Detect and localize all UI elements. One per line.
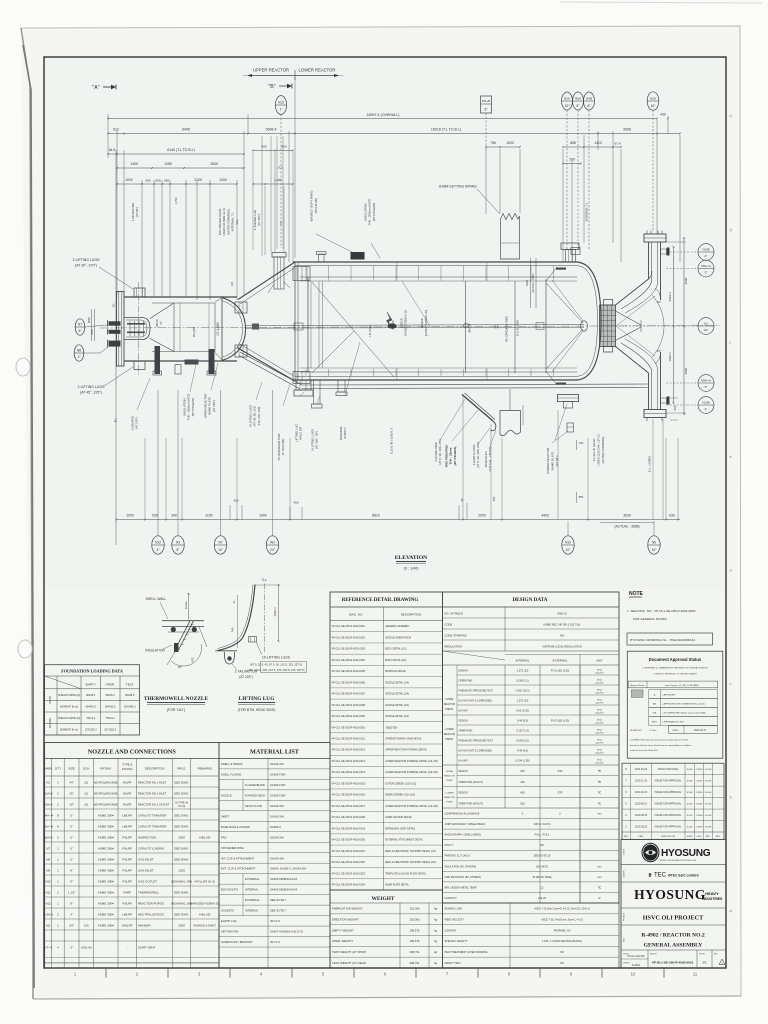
- svg-text:1071252.3: 1071252.3: [104, 728, 116, 731]
- svg-text:kg/cm²G: kg/cm²G: [596, 712, 604, 715]
- svg-text:SEE DWG.: SEE DWG.: [174, 913, 189, 917]
- svg-text:W1: W1: [270, 540, 275, 544]
- svg-text:M.A.W.P: M.A.W.P: [459, 760, 469, 763]
- svg-text:CATALYST LOADING: CATALYST LOADING: [138, 847, 164, 851]
- svg-text:document shall not relieve Ven: document shall not relieve Vendor from i…: [630, 744, 691, 747]
- svg-text:VP-OL1-SE-205-R-4002-0023: VP-OL1-SE-205-R-4002-0023: [332, 872, 366, 875]
- svg-text:kg: kg: [434, 918, 437, 922]
- svg-text:HEAVY: HEAVY: [705, 891, 719, 896]
- svg-text:M.A.W.P: M.A.W.P: [459, 710, 469, 713]
- svg-text:θ: θ: [649, 873, 652, 879]
- svg-text:FV (0.103) (1.05): FV (0.103) (1.05): [551, 720, 569, 723]
- svg-text:REACTOR NO.2 INLET: REACTOR NO.2 INLET: [138, 781, 167, 785]
- svg-text:J.Y.KMG: J.Y.KMG: [696, 781, 704, 783]
- svg-text:500: 500: [492, 496, 496, 501]
- svg-text:10": 10": [69, 803, 73, 807]
- svg-text:(T.O.S EL. +31580): (T.O.S EL. +31580): [488, 447, 492, 472]
- svg-text:SHT NO: SHT NO: [699, 954, 706, 956]
- svg-text:1593.3: 1593.3: [668, 352, 672, 362]
- svg-text:APPL: APPL: [716, 835, 721, 838]
- svg-text:kg/cm²G: kg/cm²G: [596, 692, 604, 695]
- svg-text:N13A,B: N13A,B: [43, 913, 53, 917]
- svg-text:SEE DWG.: SEE DWG.: [174, 792, 189, 796]
- svg-text:24": 24": [69, 924, 73, 928]
- svg-text:OPERATING (IN/OUT): OPERATING (IN/OUT): [459, 781, 483, 784]
- svg-text:700: 700: [579, 441, 584, 445]
- svg-text:Ø90: Ø90: [87, 317, 91, 323]
- svg-text:S.G.HM: S.G.HM: [705, 804, 712, 806]
- svg-text:350: 350: [673, 405, 677, 410]
- svg-text:BODY DETAIL (2/2): BODY DETAIL (2/2): [385, 659, 406, 662]
- svg-text:mm: mm: [597, 812, 601, 815]
- svg-text:N1: N1: [704, 322, 708, 326]
- svg-text:SUPPLY: SUPPLY: [343, 427, 347, 438]
- svg-text:INDUSTRIES: INDUSTRIES: [702, 897, 723, 901]
- svg-text:1,750: 1,750: [174, 197, 178, 204]
- svg-text:SA285-C: SA285-C: [270, 825, 281, 829]
- svg-text:450: 450: [191, 657, 195, 662]
- svg-text:DESIGN: DESIGN: [459, 792, 468, 795]
- svg-text:2020.10.22: 2020.10.22: [635, 791, 648, 794]
- svg-text:DESIGN DATA: DESIGN DATA: [512, 597, 547, 603]
- svg-text:HYOSUNG: HYOSUNG: [634, 887, 706, 902]
- svg-text:HOLE 55T: HOLE 55T: [299, 426, 303, 440]
- svg-text:1000: 1000: [506, 141, 514, 145]
- svg-text:N4A~H: N4A~H: [43, 814, 53, 818]
- svg-text:"B": "B": [268, 84, 275, 90]
- svg-text:RADIOGRAPHY (SHELL/HEAD): RADIOGRAPHY (SHELL/HEAD): [445, 834, 482, 837]
- svg-text:S.G.HM: S.G.HM: [705, 769, 712, 771]
- svg-text:(AT 90°): (AT 90°): [555, 456, 559, 467]
- svg-text:TEST WEIGHT (AT FIELD): TEST WEIGHT (AT FIELD): [332, 961, 366, 965]
- svg-text:kPaG: kPaG: [597, 730, 603, 732]
- svg-text:2020.11.18: 2020.11.18: [635, 780, 648, 783]
- svg-text:495: 495: [145, 178, 150, 182]
- svg-text:VP-OL1-SE-205-R-4002-0008: VP-OL1-SE-205-R-4002-0008: [332, 704, 366, 707]
- svg-text:2-LIFTING LUGS: 2-LIFTING LUGS: [77, 385, 105, 389]
- svg-text:N7: N7: [46, 847, 50, 851]
- svg-text:SEE NOTE 7: SEE NOTE 7: [270, 909, 287, 913]
- svg-text:SHELL FLANGE: SHELL FLANGE: [221, 772, 242, 776]
- svg-text:WIND VELOCITY: WIND VELOCITY: [445, 918, 465, 921]
- svg-text:REACTOR: REACTOR: [444, 796, 455, 799]
- svg-text:VP-OL1-SE-205-R-4002-0024: VP-OL1-SE-205-R-4002-0024: [332, 883, 366, 886]
- svg-text:-: -: [86, 891, 87, 895]
- svg-text:B.S.BD: B.S.BD: [687, 792, 694, 794]
- svg-text:SA240-304: SA240-304: [270, 856, 284, 860]
- svg-text:SHEAR FORCE [N]: SHEAR FORCE [N]: [58, 717, 80, 720]
- svg-text:FV (0.103) (1.05): FV (0.103) (1.05): [551, 670, 569, 673]
- svg-text:kg/cm²G: kg/cm²G: [596, 732, 604, 735]
- svg-text:SA240-304: SA240-304: [270, 762, 284, 766]
- svg-text:(FOR 'N11'): (FOR 'N11'): [167, 708, 185, 712]
- svg-text:VP-OL1-SE-205-R-4002-0001: VP-OL1-SE-205-R-4002-0001: [332, 625, 366, 628]
- svg-text:1-TAILING LUG: 1-TAILING LUG: [235, 670, 258, 674]
- svg-text:340: 340: [171, 514, 177, 518]
- svg-text:(S-TYPE (W: (S-TYPE (W: [175, 802, 188, 804]
- svg-text:VP-OL1-SE-205-R-4002-0009: VP-OL1-SE-205-R-4002-0009: [332, 715, 366, 718]
- svg-text:A/FILLER (N.S): A/FILLER (N.S): [194, 880, 215, 884]
- svg-text:FNLRF: FNLRF: [122, 847, 132, 851]
- svg-text:NOZZLE: NOZZLE: [221, 793, 232, 797]
- svg-text:MOMENT [N-m]: MOMENT [N-m]: [60, 705, 78, 708]
- svg-text:: J.Y.Kim: : J.Y.Kim: [648, 730, 657, 732]
- svg-text:N13: N13: [278, 100, 284, 104]
- svg-text:SCH.: SCH.: [83, 767, 90, 771]
- svg-text:620: 620: [520, 769, 525, 773]
- svg-text:11: 11: [693, 972, 698, 977]
- svg-text:FNLRF: FNLRF: [122, 869, 132, 873]
- svg-text:-: -: [86, 858, 87, 862]
- svg-text:NEUTRALIZATION: NEUTRALIZATION: [138, 913, 164, 917]
- svg-text:SA307-A/SA563-A (H.D.G): SA307-A/SA563-A (H.D.G): [270, 930, 303, 934]
- svg-text:8": 8": [70, 880, 73, 884]
- svg-text:VP-OL1-SE-205-R-4002-0001: VP-OL1-SE-205-R-4002-0001: [652, 961, 694, 965]
- svg-text:STR: STR: [558, 770, 563, 773]
- svg-text:USED (122 DIA. 127.2): USED (122 DIA. 127.2): [597, 434, 601, 465]
- svg-text:ASCE 7-16 (Site Class=D, I=1.2: ASCE 7-16 (Site Class=D, I=1.25, Ss=0.25…: [534, 908, 589, 911]
- svg-text:DESCRIPTION: DESCRIPTION: [661, 836, 675, 838]
- svg-text:INSPECTION: INSPECTION: [138, 836, 156, 840]
- svg-text:P.W.H.T: P.W.H.T: [445, 844, 454, 847]
- svg-text:INSULATION (BY OTHERS): INSULATION (BY OTHERS): [445, 865, 477, 868]
- svg-text:(NOMINAL 190): (NOMINAL 190): [171, 880, 192, 884]
- svg-text:24": 24": [270, 548, 276, 552]
- svg-text:ASCE 7-16, (V=160 m/s, Exp=C,: ASCE 7-16, (V=160 m/s, Exp=C, I=1.0): [541, 918, 583, 921]
- svg-text:45°: 45°: [178, 665, 183, 669]
- svg-text:OPERATING (IN/OUT): OPERATING (IN/OUT): [459, 802, 483, 805]
- svg-text:-: -: [127, 946, 128, 950]
- svg-text:N13B: N13B: [702, 401, 709, 405]
- svg-text:16": 16": [651, 104, 657, 108]
- svg-text:TEST WEIGHT (AT SHOP): TEST WEIGHT (AT SHOP): [332, 950, 366, 954]
- svg-text:B.S.BD: B.S.BD: [687, 804, 694, 806]
- svg-text:[SCH40 AB]: [SCH40 AB]: [314, 198, 318, 213]
- svg-text:430: 430: [660, 113, 666, 117]
- svg-text:N11: N11: [46, 891, 52, 895]
- svg-text:N2A,B: N2A,B: [44, 792, 53, 796]
- svg-text:INTERNAL T.L: INTERNAL T.L: [585, 202, 589, 221]
- svg-text:338,761: 338,761: [409, 950, 420, 954]
- svg-text:168,575: 168,575: [409, 939, 420, 943]
- svg-text:(ACTUAL : 3598): (ACTUAL : 3598): [614, 525, 639, 529]
- svg-text:(BY OTHERS): (BY OTHERS): [372, 203, 376, 222]
- svg-text:N7: N7: [78, 322, 82, 326]
- svg-text:(ACTUAL : 2190): (ACTUAL : 2190): [532, 273, 535, 292]
- svg-text:-: -: [86, 814, 87, 818]
- svg-text:kg/cm²G: kg/cm²G: [596, 682, 604, 685]
- svg-text:kg: kg: [434, 961, 437, 965]
- svg-text:PNEUMATIC PRESSURE TEST: PNEUMATIC PRESSURE TEST: [459, 740, 494, 743]
- svg-text:PROJECT: PROJECT: [624, 913, 626, 921]
- svg-text:ASME 300#: ASME 300#: [98, 847, 114, 851]
- svg-text:VP-OL1-SE-205-R-4002-0006: VP-OL1-SE-205-R-4002-0006: [332, 681, 366, 684]
- svg-text:1285: 1285: [164, 162, 172, 166]
- svg-text:NOZZLE DETAIL (1/4): NOZZLE DETAIL (1/4): [385, 681, 409, 684]
- svg-text:NOZZLE DETAIL (4/4): NOZZLE DETAIL (4/4): [385, 715, 409, 718]
- svg-text:2. REFLECT THE RESULT TO THE N: 2. REFLECT THE RESULT TO THE NEXT SUBMIT: [653, 674, 697, 676]
- svg-text:1": 1": [280, 108, 283, 112]
- svg-text:1. SEE DWG. NO : VP-OL1-SE-205: 1. SEE DWG. NO : VP-OL1-SE-205-R-4002-00…: [627, 609, 696, 613]
- svg-text:N10: N10: [45, 880, 51, 884]
- svg-text:0.49 (5.0): 0.49 (5.0): [517, 749, 528, 753]
- svg-text:FIRE PROOFING (BY OTHERS): FIRE PROOFING (BY OTHERS): [445, 876, 482, 879]
- svg-text:1. REVIEWING & COMMENTING BY T: 1. REVIEWING & COMMENTING BY THE RESULT …: [642, 667, 708, 670]
- svg-text:-: -: [105, 946, 106, 950]
- svg-text:625: 625: [520, 801, 525, 805]
- svg-text:STR: STR: [558, 792, 563, 795]
- svg-text:2500: 2500: [684, 277, 688, 284]
- svg-text:kPaG: kPaG: [597, 690, 603, 692]
- svg-text:FNLRF: FNLRF: [122, 880, 132, 884]
- svg-text:"A": "A": [92, 85, 99, 91]
- svg-text:C.L +23500: C.L +23500: [648, 456, 652, 472]
- svg-text:TEST: TEST: [126, 683, 134, 687]
- svg-text:(BY OTHERS): (BY OTHERS): [191, 398, 195, 417]
- svg-text:DATE :: DATE :: [673, 729, 680, 732]
- svg-text:0.134 (1.38): 0.134 (1.38): [516, 759, 530, 763]
- svg-text:KT~4: KT~4: [45, 946, 53, 950]
- svg-text:= INFORMATION ONLY: = INFORMATION ONLY: [662, 720, 685, 723]
- svg-text:EMPTY WEIGHT: EMPTY WEIGHT: [332, 928, 354, 932]
- svg-text:INTERNAL: INTERNAL: [245, 909, 259, 913]
- svg-text:1000: 1000: [126, 514, 134, 518]
- svg-text:STIFFENER RING: STIFFENER RING: [221, 846, 244, 850]
- svg-text:ISSUE FOR APPROVAL: ISSUE FOR APPROVAL: [655, 814, 682, 817]
- svg-text:(AT 270°): (AT 270°): [135, 417, 139, 429]
- svg-text:WIND: WIND: [48, 696, 52, 703]
- svg-text:LOWER REACTOR INTERNAL DETAIL: LOWER REACTOR INTERNAL DETAIL (7/9~9/9): [385, 805, 438, 808]
- svg-text:COMPRESSION ALLOWANCE: COMPRESSION ALLOWANCE: [445, 812, 480, 815]
- svg-text:VP-OL1-SE-205-R-4002-0022: VP-OL1-SE-205-R-4002-0022: [332, 861, 366, 864]
- svg-text:VP-OL1-SE-205-R-4002-0015: VP-OL1-SE-205-R-4002-0015: [332, 782, 366, 785]
- svg-text:0.157 (1.6): 0.157 (1.6): [516, 729, 529, 733]
- svg-text:LWLRF: LWLRF: [122, 913, 132, 917]
- svg-text:kg: kg: [434, 928, 437, 932]
- svg-text:FNRF: FNRF: [123, 891, 131, 895]
- svg-text:OUTER SCREEN (1/2)~(2/2): OUTER SCREEN (1/2)~(2/2): [385, 782, 416, 785]
- svg-text:[INNER SCREEN I.D]: [INNER SCREEN I.D]: [404, 310, 408, 335]
- svg-text:-: -: [181, 946, 182, 950]
- svg-text:LOWER REACTOR: LOWER REACTOR: [299, 68, 336, 73]
- svg-text:SA240-304: SA240-304: [270, 814, 284, 818]
- svg-text:115: 115: [84, 924, 89, 928]
- svg-text:SETTING R/N: SETTING R/N: [221, 930, 238, 934]
- svg-text:MARK: MARK: [44, 767, 52, 771]
- svg-text:400: 400: [520, 780, 525, 784]
- svg-text:LOWER REACTOR INTERNAL DETAIL: LOWER REACTOR INTERNAL DETAIL (4/9~6/9): [385, 771, 438, 774]
- svg-text:INFO: INFO: [652, 721, 658, 723]
- svg-text:EXTERNAL: EXTERNAL: [553, 659, 568, 663]
- svg-text:98235.4: 98235.4: [86, 694, 96, 697]
- svg-text:VP-OL1-SE-205-R-4002-0010: VP-OL1-SE-205-R-4002-0010: [332, 726, 366, 729]
- svg-text:kPaG: kPaG: [597, 760, 603, 762]
- svg-text:100 % / 100 %: 100 % / 100 %: [534, 822, 552, 826]
- svg-text:J.Y.KMG: J.Y.KMG: [696, 769, 704, 771]
- svg-text:5": 5": [70, 858, 73, 862]
- svg-text:CONTR: CONTR: [624, 848, 626, 855]
- svg-text:N 0.3)): N 0.3)): [178, 806, 185, 808]
- svg-text:10: 10: [631, 972, 636, 977]
- svg-text:B.S.BD: B.S.BD: [687, 826, 694, 828]
- svg-text:NOTE: NOTE: [629, 591, 644, 597]
- svg-text:LIFTING LUG: LIFTING LUG: [239, 696, 276, 702]
- svg-text:NO: NO: [560, 962, 564, 965]
- svg-text:4": 4": [705, 407, 708, 411]
- svg-text:1.275 (13): 1.275 (13): [517, 669, 529, 673]
- svg-text:2021.01.26: 2021.01.26: [635, 768, 648, 771]
- svg-text:N2A: N2A: [564, 96, 571, 100]
- svg-text:N3: N3: [176, 540, 180, 544]
- svg-text:h: h: [730, 113, 732, 118]
- svg-text:1,000: 1,000: [274, 178, 282, 182]
- svg-text:W/RODED FILER(N.S): W/RODED FILER(N.S): [191, 902, 219, 906]
- svg-text:CONTRACTOR permission to proce: CONTRACTOR permission to proceed or revi…: [630, 739, 688, 742]
- svg-text:JOINT EFFICIENCY (SHELL/HEAD): JOINT EFFICIENCY (SHELL/HEAD): [445, 823, 486, 826]
- svg-text:FABRICATION WEIGHT: FABRICATION WEIGHT: [332, 907, 363, 911]
- svg-text:16": 16": [652, 548, 658, 552]
- svg-text:500: 500: [155, 178, 160, 182]
- svg-text:PNEUMATIC PRESSURE TEST: PNEUMATIC PRESSURE TEST: [459, 690, 494, 693]
- svg-text:98235.4: 98235.4: [106, 694, 116, 697]
- svg-text:LINER ANCHOR DETAIL: LINER ANCHOR DETAIL: [385, 816, 412, 819]
- svg-text:RC OPENING 4600: RC OPENING 4600: [505, 316, 509, 342]
- svg-text:2606.4: 2606.4: [266, 128, 277, 132]
- svg-text:EXPANSION JOINT DETAIL: EXPANSION JOINT DETAIL: [385, 827, 416, 830]
- svg-text:ONE (1): ONE (1): [557, 612, 567, 616]
- svg-text:8": 8": [70, 902, 73, 906]
- svg-text:NECK PLATE: NECK PLATE: [245, 804, 262, 808]
- svg-text:5": 5": [70, 814, 73, 818]
- svg-text:PROJ.: PROJ.: [177, 767, 186, 771]
- svg-text:64.5: 64.5: [109, 148, 115, 152]
- svg-text:SKIRT VENT: SKIRT VENT: [138, 946, 156, 950]
- svg-text:78114.2: 78114.2: [106, 717, 115, 720]
- svg-text:8-Ø64 SETTING R/RING: 8-Ø64 SETTING R/RING: [439, 185, 477, 189]
- svg-text:16-LIFTING LUGS: 16-LIFTING LUGS: [262, 656, 291, 660]
- svg-text:SEE DWG.: SEE DWG.: [174, 847, 189, 851]
- svg-text:-: -: [86, 836, 87, 840]
- svg-text:VP-OL1-SE-205-R-4002-0013: VP-OL1-SE-205-R-4002-0013: [332, 760, 366, 763]
- svg-text:10": 10": [218, 548, 224, 552]
- svg-text:ISSUE FOR APPROVAL: ISSUE FOR APPROVAL: [655, 803, 682, 806]
- svg-text:-: -: [86, 880, 87, 884]
- svg-text:ASME 300#: ASME 300#: [98, 891, 114, 895]
- svg-text:1593.3: 1593.3: [273, 607, 277, 617]
- svg-text:5": 5": [705, 270, 708, 274]
- svg-text:ASME 300#: ASME 300#: [98, 880, 114, 884]
- svg-text:15°: 15°: [657, 349, 661, 353]
- svg-text:0.539 (5.5): 0.539 (5.5): [516, 739, 529, 743]
- svg-text:78114.2: 78114.2: [86, 717, 95, 720]
- svg-text:Ø1,200: Ø1,200: [192, 327, 196, 337]
- svg-text:ASME 300#: ASME 300#: [98, 924, 114, 928]
- svg-text:2000: 2000: [478, 514, 486, 518]
- svg-text:Ø610: Ø610: [155, 319, 159, 327]
- svg-text:500: 500: [281, 145, 286, 149]
- svg-text:BODY DETAIL (1/2): BODY DETAIL (1/2): [385, 648, 406, 651]
- svg-text:1071252.3: 1071252.3: [85, 728, 97, 731]
- svg-text:-: -: [86, 902, 87, 906]
- svg-text:ASME 300#: ASME 300#: [98, 869, 114, 873]
- svg-text:44": 44": [704, 328, 709, 332]
- svg-text:REACTOR: REACTOR: [444, 703, 456, 706]
- svg-text:ISSUE FOR APPROVAL: ISSUE FOR APPROVAL: [655, 825, 682, 828]
- svg-text:GENERAL ASSEMBLY: GENERAL ASSEMBLY: [385, 625, 410, 628]
- svg-text:d: d: [730, 567, 732, 572]
- svg-text:N1: N1: [46, 781, 50, 785]
- svg-text:REACTOR: REACTOR: [444, 733, 456, 736]
- svg-text:= NOT APPROVED (Reject and re: = NOT APPROVED (Reject and re-submit (SA…: [662, 711, 706, 714]
- svg-text:(AT 330°, 30°): (AT 330°, 30°): [315, 431, 319, 449]
- svg-text:kg/cm²G: kg/cm²G: [596, 752, 604, 755]
- svg-text:FULL / FULL: FULL / FULL: [535, 833, 550, 837]
- svg-text:kPaG: kPaG: [597, 720, 603, 722]
- svg-text:ERECTION WEIGHT: ERECTION WEIGHT: [332, 918, 359, 922]
- svg-text:0.206 (2.1): 0.206 (2.1): [516, 679, 529, 683]
- svg-text:LOWER REACTOR: LOWER REACTOR: [546, 447, 550, 474]
- svg-text:Ø3438: Ø3438: [468, 323, 472, 332]
- svg-text:M.A.W.P (HOT & CORRODED): M.A.W.P (HOT & CORRODED): [459, 700, 493, 703]
- svg-text:600: 600: [520, 791, 525, 795]
- svg-text:NAME PLATE DETAIL: NAME PLATE DETAIL: [385, 883, 409, 886]
- svg-text:ASME SEC VIII DIV.1 2017 Ed.: ASME SEC VIII DIV.1 2017 Ed.: [543, 623, 581, 627]
- svg-text:FNLRF: FNLRF: [122, 836, 132, 840]
- svg-text:CHKD: CHKD: [696, 836, 702, 838]
- svg-text:1.275 (13): 1.275 (13): [517, 699, 529, 703]
- svg-text:WWW.HYOSUNGHEAVYINDUSTRIES.COM: WWW.HYOSUNGHEAVYINDUSTRIES.COM: [660, 859, 697, 862]
- svg-text:5": 5": [70, 825, 73, 829]
- svg-text:CAPACITY: CAPACITY: [445, 897, 458, 900]
- svg-text:I.D 2436: I.D 2436: [368, 325, 372, 337]
- svg-text:ØTEC E&C Limited: ØTEC E&C Limited: [668, 874, 699, 878]
- svg-text:(AT 90°, 270°): (AT 90°, 270°): [75, 264, 97, 268]
- svg-text:(AT 180°): (AT 180°): [212, 400, 216, 412]
- svg-text:TYPE &: TYPE &: [122, 763, 132, 767]
- svg-text:1/1: 1/1: [702, 961, 707, 965]
- svg-text:858: 858: [570, 141, 576, 145]
- svg-text:DESIGN: DESIGN: [459, 770, 468, 773]
- svg-text:LOWER: LOWER: [445, 729, 454, 731]
- svg-text:PROPANE / H2: PROPANE / H2: [554, 929, 571, 932]
- svg-text:M.A.W.P (HOT & CORRODED): M.A.W.P (HOT & CORRODED): [459, 750, 493, 753]
- svg-text:-: -: [86, 847, 87, 851]
- svg-text:1 1/2": 1 1/2": [68, 891, 76, 895]
- svg-text:2202: 2202: [525, 280, 529, 286]
- svg-text:604432.5: 604432.5: [85, 705, 96, 708]
- svg-text:DESIGN: DESIGN: [459, 670, 468, 673]
- svg-text:CATALYST TRANSFER: CATALYST TRANSFER: [138, 825, 166, 829]
- svg-text:SEISMIC LOAD: SEISMIC LOAD: [445, 908, 463, 911]
- svg-text:2020.03.25: 2020.03.25: [635, 825, 648, 828]
- svg-text:SEE DWG.: SEE DWG.: [174, 891, 189, 895]
- svg-text:530: 530: [152, 514, 158, 518]
- svg-text:C.L: C.L: [262, 578, 267, 582]
- svg-text:GAS INLET: GAS INLET: [138, 869, 154, 873]
- svg-text:WNLRF: WNLRF: [122, 924, 133, 928]
- svg-text:PRESS.: PRESS.: [445, 739, 454, 741]
- svg-text:1.183 / 1.0 (FOR NEUTRALIZATIO: 1.183 / 1.0 (FOR NEUTRALIZATION): [542, 940, 582, 943]
- svg-text:(NOMINAL 190): (NOMINAL 190): [171, 902, 192, 906]
- svg-text:(BY OTHERS): (BY OTHERS): [453, 447, 457, 466]
- svg-text:194.26: 194.26: [538, 896, 546, 900]
- svg-text:600 RF(LWN) 900B: 600 RF(LWN) 900B: [94, 803, 118, 807]
- svg-text:SA240-304: SA240-304: [270, 804, 284, 808]
- svg-text:REACTOR PURGE: REACTOR PURGE: [138, 902, 164, 906]
- svg-text:EXTERNAL ATTACHMENT DETAIL: EXTERNAL ATTACHMENT DETAIL: [385, 839, 424, 842]
- svg-text:WLRF: WLRF: [123, 803, 132, 807]
- svg-text:B.S.BD: B.S.BD: [687, 815, 694, 817]
